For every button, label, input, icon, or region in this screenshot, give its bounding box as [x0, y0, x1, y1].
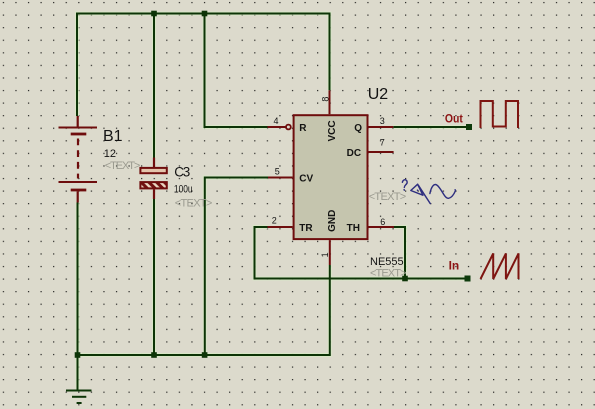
svg-text:<TEXT>: <TEXT> — [175, 197, 213, 209]
svg-text:C3: C3 — [174, 165, 190, 180]
svg-text:8: 8 — [320, 97, 330, 102]
svg-text:DC: DC — [347, 148, 361, 159]
svg-text:In: In — [449, 259, 460, 273]
svg-text:TR: TR — [299, 223, 313, 234]
svg-text:U2: U2 — [368, 86, 389, 103]
svg-text:5: 5 — [275, 166, 280, 176]
svg-text:100u: 100u — [174, 183, 193, 195]
svg-text:Out: Out — [445, 111, 463, 125]
svg-text:NE555: NE555 — [370, 256, 404, 268]
svg-text:7: 7 — [380, 138, 385, 148]
svg-text:<TEXT>: <TEXT> — [370, 268, 407, 280]
svg-text:GND: GND — [327, 210, 338, 232]
svg-text:R: R — [299, 123, 307, 134]
svg-text:<TEXT>: <TEXT> — [105, 160, 141, 172]
svg-text:CV: CV — [299, 174, 313, 185]
svg-text:6: 6 — [380, 217, 385, 227]
svg-text:4: 4 — [274, 116, 279, 126]
svg-text:<TEXT>: <TEXT> — [369, 191, 407, 203]
svg-text:2: 2 — [272, 216, 277, 226]
svg-text:VCC: VCC — [327, 120, 338, 141]
svg-text:B1: B1 — [103, 128, 123, 145]
svg-text:12: 12 — [104, 148, 116, 160]
svg-text:1: 1 — [320, 252, 330, 257]
svg-text:Q: Q — [354, 123, 362, 134]
svg-text:3: 3 — [380, 116, 385, 126]
svg-text:TH: TH — [347, 223, 360, 234]
